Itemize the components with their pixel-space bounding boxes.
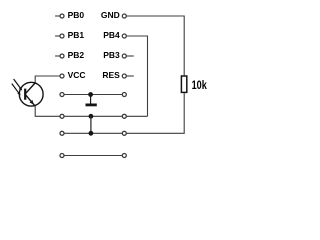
wire PB3 stub: [127, 55, 134, 57]
pin wireB left: [60, 114, 64, 118]
wire D: [62, 155, 124, 157]
pin GND: [122, 14, 126, 18]
junction dot on wire B: [89, 114, 94, 119]
pin wireD left: [60, 154, 64, 158]
transistor Q1 collector line: [25, 83, 35, 94]
wire VCC to transistor collector: [35, 76, 60, 83]
wire C (resistor bottom net): [62, 93, 184, 133]
photo arrow 2: [12, 84, 19, 93]
pin wireC left: [60, 131, 64, 135]
pin PB0: [60, 14, 64, 18]
svg-text:PB4: PB4: [103, 30, 120, 40]
svg-text:PB3: PB3: [103, 50, 120, 60]
wire GND to resistor top: [127, 16, 185, 75]
pin PB3: [122, 54, 126, 58]
pin wireA right: [122, 93, 126, 97]
pin PB2: [60, 54, 64, 58]
resistor R1 body: [181, 76, 186, 92]
ground symbol bar: [86, 104, 97, 107]
wire RES stub: [127, 75, 134, 77]
pin wireD right: [122, 154, 126, 158]
photo arrow 1: [14, 79, 21, 88]
svg-text:VCC: VCC: [68, 70, 86, 80]
wire PB0 stub: [55, 15, 60, 17]
transistor Q1 emitter line: [25, 95, 35, 107]
pin VCC: [60, 74, 64, 78]
wire PB2 stub: [55, 55, 60, 57]
junction dot on wire C: [89, 131, 94, 136]
wire PB4 down to wire B: [127, 36, 148, 116]
pin PB1: [60, 34, 64, 38]
pin wireC right: [122, 131, 126, 135]
svg-text:PB2: PB2: [68, 50, 85, 60]
junction dot on wire A: [88, 92, 93, 97]
wire B (emitter / PB4 net): [35, 106, 147, 116]
pin RES: [122, 74, 126, 78]
wire B to C vertical: [90, 116, 92, 133]
transistor Q1 base bar: [24, 89, 26, 100]
wire PB1 stub: [55, 35, 60, 37]
pin PB4: [122, 34, 126, 38]
svg-text:10k: 10k: [192, 80, 208, 92]
pin wireB right: [122, 114, 126, 118]
svg-text:RES: RES: [102, 70, 120, 80]
pin wireA left: [60, 93, 64, 97]
wire A (ground rail): [62, 94, 124, 96]
transistor Q1 body circle: [19, 82, 43, 106]
svg-text:PB0: PB0: [68, 10, 85, 20]
transistor Q1 emitter arrowhead: [30, 100, 34, 104]
svg-text:GND: GND: [101, 10, 120, 20]
svg-text:PB1: PB1: [68, 30, 85, 40]
ground symbol lead: [90, 95, 92, 104]
